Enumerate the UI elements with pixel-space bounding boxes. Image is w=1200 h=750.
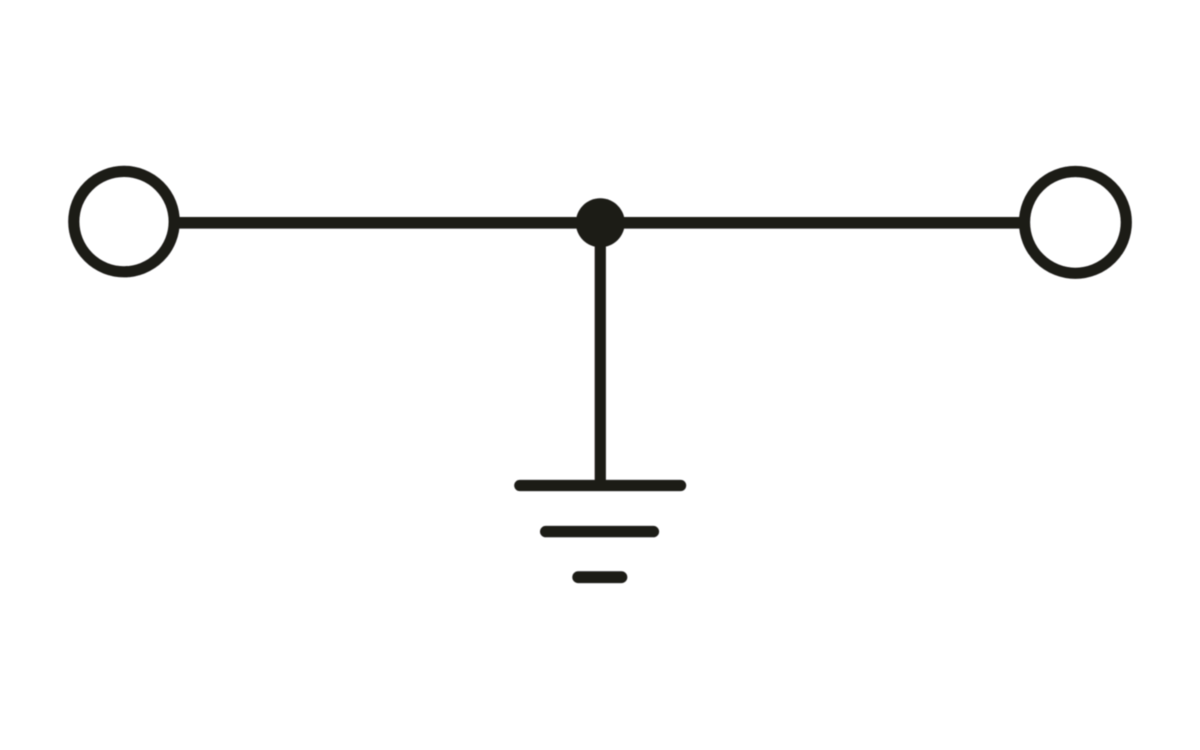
wire to ground bbox=[595, 223, 606, 486]
ground bbox=[520, 486, 681, 578]
wire right segment bbox=[600, 217, 1026, 229]
wire left segment bbox=[173, 217, 600, 229]
terminal circle left bbox=[74, 171, 174, 271]
junction node bbox=[576, 198, 625, 247]
terminal circle right bbox=[1025, 172, 1127, 274]
